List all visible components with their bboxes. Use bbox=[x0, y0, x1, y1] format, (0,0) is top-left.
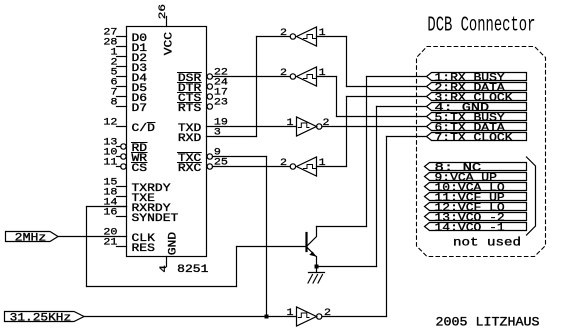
svg-text:2: 2 bbox=[280, 158, 287, 169]
connector pin flag 9:VCA UP bbox=[425, 173, 527, 181]
junction 31.25KHz / TXC bbox=[265, 315, 269, 319]
pin 26 VCC wire bbox=[166, 17, 168, 27]
svg-text:1: 1 bbox=[319, 158, 326, 169]
pin 5 D4 wire bbox=[117, 76, 127, 78]
svg-text:C/D: C/D bbox=[132, 123, 156, 135]
inverter U2A body bbox=[290, 34, 295, 39]
pin 18 TXE wire bbox=[117, 196, 127, 198]
wire RXRDY to Q1 base bbox=[87, 206, 127, 208]
pin 11 CS wire bbox=[117, 166, 121, 168]
svg-text:DCB Connector: DCB Connector bbox=[427, 14, 535, 38]
connector pin flag 2:RX DATA bbox=[427, 83, 527, 91]
transistor Q1 base bar bbox=[305, 233, 307, 251]
pin 22 DSR wire to inverter bbox=[213, 76, 291, 78]
pin GND name label bbox=[167, 232, 179, 256]
pin 26 number label bbox=[158, 4, 169, 19]
pin 9 TXC bubble bbox=[207, 154, 212, 159]
inverter U2C body bbox=[297, 117, 317, 136]
pin 10 WR wire bbox=[117, 156, 121, 158]
svg-text:1: 1 bbox=[319, 28, 326, 39]
svg-text:1: 1 bbox=[287, 308, 294, 319]
wire inverter B input from TX BUSY bbox=[317, 76, 337, 78]
pin 1 D2 wire bbox=[117, 56, 127, 58]
svg-text:8: 8 bbox=[111, 98, 118, 109]
DCB Connector title bbox=[427, 14, 535, 38]
svg-text:2: 2 bbox=[324, 308, 331, 319]
svg-text:12: 12 bbox=[103, 118, 117, 129]
pin 13 RD wire bbox=[117, 146, 121, 148]
pin 8 D7 wire bbox=[117, 106, 127, 108]
pin 27 D0 wire bbox=[117, 36, 127, 38]
connector pin flag 11:VCF UP bbox=[425, 193, 527, 201]
pin 15 TXRDY wire bbox=[117, 186, 127, 188]
transistor Q1 collector bbox=[307, 227, 316, 246]
connector pin flag 6:TX DATA bbox=[427, 123, 527, 131]
svg-text:CS: CS bbox=[132, 163, 148, 175]
connector pin flag 13:VCO -2 bbox=[425, 213, 527, 221]
bracket for unused pins bbox=[527, 157, 536, 235]
signal flag 31.25KHz bbox=[5, 312, 85, 322]
pin 10 WR bubble bbox=[121, 154, 126, 159]
DCB connector dashed outline bbox=[417, 47, 546, 257]
connector pin flag 1:RX BUSY bbox=[427, 73, 527, 81]
inverter U2E body bbox=[297, 307, 317, 326]
wire inverter A output to RXD bbox=[257, 36, 291, 38]
svg-text:GND: GND bbox=[167, 232, 179, 256]
svg-text:2MHz: 2MHz bbox=[15, 232, 47, 244]
inverter U2D body bbox=[290, 164, 295, 169]
svg-text:2: 2 bbox=[280, 68, 287, 79]
signal flag 2MHz bbox=[6, 232, 59, 242]
svg-text:RES: RES bbox=[132, 243, 156, 255]
wire inverter A input from RX DATA bbox=[317, 36, 347, 38]
svg-text:31.25KHz: 31.25KHz bbox=[10, 312, 71, 324]
svg-text:2005 LITZHAUS: 2005 LITZHAUS bbox=[436, 315, 540, 330]
junction at Q1 emitter bbox=[315, 265, 319, 269]
svg-text:RTS: RTS bbox=[178, 103, 202, 115]
pin 4 number label bbox=[159, 265, 170, 273]
pin 24 DTR bubble bbox=[207, 84, 212, 89]
pin 16 SYNDET wire bbox=[117, 216, 127, 218]
connector pin flag 14:VCO -1 bbox=[425, 223, 527, 231]
pin 23 RTS bubble bbox=[207, 104, 212, 109]
svg-text:11: 11 bbox=[103, 158, 117, 169]
pin 17 CTS bubble bbox=[207, 94, 212, 99]
svg-text:7:TX CLOCK: 7:TX CLOCK bbox=[435, 133, 513, 145]
IC U1 8251 USART body bbox=[127, 27, 207, 257]
connector pin flag 8: NC bbox=[425, 163, 527, 171]
connector pin flag 3:RX CLOCK bbox=[427, 93, 527, 101]
pin 2 D3 wire bbox=[117, 66, 127, 68]
svg-text:4: 4 bbox=[159, 265, 170, 273]
transistor Q1 emitter bbox=[307, 248, 315, 256]
svg-text:23: 23 bbox=[214, 97, 228, 108]
pin 28 D1 wire bbox=[117, 46, 127, 48]
wire TXD to inverter C bbox=[207, 126, 297, 128]
connector pin flag 10:VCA LO bbox=[425, 183, 527, 191]
pin 6 D5 wire bbox=[117, 86, 127, 88]
wire inverter C output to TX DATA bbox=[322, 126, 427, 128]
wire Q1 base from RXRDY bbox=[237, 246, 306, 248]
svg-text:2: 2 bbox=[280, 28, 287, 39]
pin 21 RES wire bbox=[117, 246, 127, 248]
pin 14 RXRDY wire bbox=[117, 206, 127, 208]
connector pin flag 5:TX BUSY bbox=[427, 113, 527, 121]
pin 25 RXC bubble bbox=[207, 164, 212, 169]
svg-text:not used: not used bbox=[453, 236, 521, 250]
inverter U2B body bbox=[290, 74, 295, 79]
wire inverter D input from RX CLOCK bbox=[317, 166, 347, 168]
wire RXC to inverter D output bbox=[213, 166, 291, 168]
svg-text:26: 26 bbox=[158, 4, 169, 19]
chassis ground symbol bbox=[309, 272, 325, 274]
pin 22 DSR bubble bbox=[207, 74, 212, 79]
pin 7 D6 wire bbox=[117, 96, 127, 98]
svg-text:8251: 8251 bbox=[177, 264, 209, 276]
wire Q1 collector to RX BUSY bbox=[317, 226, 367, 228]
svg-text:16: 16 bbox=[103, 208, 117, 219]
svg-text:21: 21 bbox=[103, 238, 117, 249]
svg-text:1: 1 bbox=[319, 68, 326, 79]
pin VCC name label bbox=[163, 32, 175, 56]
svg-text:D7: D7 bbox=[132, 103, 148, 115]
svg-text:RXD: RXD bbox=[178, 133, 202, 145]
connector pin flag 4: GND bbox=[427, 103, 527, 111]
wire Q1 emitter to GND flag bbox=[317, 266, 377, 268]
svg-text:1: 1 bbox=[287, 118, 294, 129]
pin 12 C/D wire bbox=[117, 126, 127, 128]
svg-text:14:VCO -1: 14:VCO -1 bbox=[435, 223, 506, 235]
svg-text:VCC: VCC bbox=[163, 32, 175, 56]
pin 4 GND wire bbox=[166, 257, 168, 267]
wire TXC down to 31.25KHz bbox=[213, 156, 267, 158]
wire inverter E output to TX CLOCK bbox=[322, 316, 387, 318]
svg-text:RXC: RXC bbox=[178, 163, 202, 175]
wire 31.25KHz to inverter E and TXC bbox=[84, 316, 297, 318]
svg-text:SYNDET: SYNDET bbox=[132, 213, 179, 225]
pin 13 RD bubble bbox=[121, 144, 126, 149]
wire 2MHz to CLK bbox=[58, 236, 127, 238]
connector pin flag 12:VCF LO bbox=[425, 203, 527, 211]
pin 11 CS bubble bbox=[121, 164, 126, 169]
connector pin flag 7:TX CLOCK bbox=[427, 133, 527, 141]
svg-text:2: 2 bbox=[323, 118, 330, 129]
